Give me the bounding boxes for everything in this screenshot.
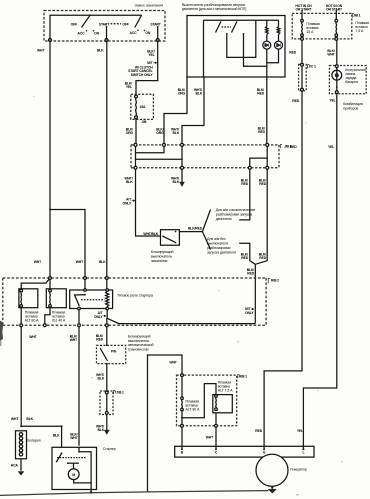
svg-text:P/N: P/N [111,349,117,353]
svg-text:HCA: HCA [11,464,19,468]
svg-text:WHT: WHT [76,260,84,264]
svg-text:батареи: батареи [345,80,358,84]
svg-text:ORG: ORG [178,92,186,96]
svg-text:BLK/RED: BLK/RED [188,227,203,231]
svg-text:зажигания: зажигания [151,259,167,263]
svg-text:BLK: BLK [172,180,179,184]
svg-text:BLK: BLK [195,92,202,96]
svg-text:WHT: WHT [29,335,37,339]
svg-text:YEL: YEL [328,145,334,149]
svg-text:ON: ON [94,32,99,36]
svg-text:YEL: YEL [148,53,154,57]
svg-text:J/B 1: J/B 1 [353,14,361,18]
svg-text:RED: RED [259,256,266,260]
svg-text:BLK: BLK [172,131,179,135]
svg-text:OFF: OFF [122,23,128,27]
svg-text:RED: RED [290,145,297,149]
svg-text:ON: ON [145,31,150,35]
svg-text:OR START: OR START [326,8,343,12]
svg-text:BLK: BLK [97,49,104,53]
svg-text:Для а/м без: Для а/м без [207,237,226,241]
svg-text:YEL: YEL [297,429,303,433]
svg-text:ONLY: ONLY [245,311,254,315]
svg-text:разблокировки запуска: разблокировки запуска [216,212,252,216]
svg-text:YEL: YEL [329,99,335,103]
svg-text:15 А: 15 А [306,30,314,34]
svg-text:ALT 80 А: ALT 80 А [186,408,201,412]
svg-text:ORG: ORG [126,131,134,135]
svg-text:ORG: ORG [156,131,164,135]
svg-text:WHT: WHT [34,260,42,264]
svg-text:двигателя: двигателя [216,217,232,221]
svg-text:WHT: WHT [11,417,19,421]
svg-text:ALT 7,5 А: ALT 7,5 А [218,388,233,392]
svg-text:приборов: приборов [343,106,358,110]
svg-text:M: M [72,473,75,477]
svg-text:BLK: BLK [99,260,106,264]
svg-text:ONLY: ONLY [94,315,103,319]
svg-text:Тяговое реле стартера: Тяговое реле стартера [117,294,153,298]
svg-text:разблокировки: разблокировки [207,246,230,250]
svg-text:трансмиссии: трансмиссии [128,347,149,351]
svg-text:OFF: OFF [71,23,77,27]
svg-text:Для а/м с выключателем: Для а/м с выключателем [216,208,256,212]
svg-text:RED: RED [259,182,266,186]
svg-text:7,5 А: 7,5 А [355,29,364,33]
svg-text:IG1 40 А: IG1 40 А [52,319,66,323]
svg-text:YEL: YEL [126,85,132,89]
svg-text:ONLY: ONLY [122,201,131,205]
svg-text:Генератор: Генератор [290,468,306,472]
svg-text:R/B 2: R/B 2 [271,279,279,283]
svg-text:RED: RED [255,429,262,433]
svg-text:Батарея: Батарея [27,439,40,443]
svg-text:15A: 15A [140,105,146,109]
svg-text:запуска двигателя: запуска двигателя [207,251,236,255]
svg-text:G: G [263,451,266,455]
svg-text:WHT: WHT [70,436,78,440]
svg-text:BLK: BLK [126,180,133,184]
svg-text:RED: RED [292,99,299,103]
svg-text:WHT: WHT [206,435,214,439]
svg-text:выключателя: выключателя [207,242,228,246]
svg-text:WHT: WHT [327,53,335,57]
svg-text:WHT: WHT [169,360,177,364]
svg-text:B: B [181,451,184,455]
svg-text:START: START [99,23,110,27]
svg-text:TJ/B 1: TJ/B 1 [115,391,125,395]
svg-text:J/B: J/B [142,120,148,124]
svg-text:ALT 80 А: ALT 80 А [25,319,40,323]
svg-text:ACC: ACC [78,32,86,36]
svg-text:BLK: BLK [53,433,60,437]
svg-text:WHT/BLK: WHT/BLK [143,232,158,236]
svg-text:RED: RED [241,182,248,186]
svg-text:C: C [215,451,218,455]
svg-text:RED: RED [241,256,248,260]
svg-text:SWITCH ONLY: SWITCH ONLY [131,73,154,77]
svg-text:RED: RED [247,272,254,276]
svg-text:Блокирующий: Блокирующий [151,250,173,254]
svg-text:RED: RED [96,338,103,342]
svg-text:RED: RED [257,92,264,96]
svg-text:START: START [150,23,161,27]
svg-text:WHT: WHT [37,49,45,53]
svg-text:R/B 1: R/B 1 [239,374,247,378]
svg-text:двигателя (для а/м с механичес: двигателя (для а/м с механической КПП) [182,7,246,11]
svg-text:RED: RED [289,51,296,55]
svg-text:ACC: ACC [130,31,138,35]
svg-text:RED: RED [258,130,265,134]
svg-text:Стартер: Стартер [103,447,116,451]
svg-text:BLK: BLK [97,377,104,381]
svg-text:L: L [302,451,304,455]
svg-text:выключатель: выключатель [151,254,172,258]
svg-text:BLK: BLK [26,417,33,421]
svg-text:J/C 1: J/C 1 [308,65,316,69]
svg-text:BLK: BLK [97,428,104,432]
svg-text:OR START: OR START [296,8,313,12]
svg-text:WHT: WHT [70,338,78,342]
svg-text:Замок зажигания: Замок зажигания [134,4,163,8]
